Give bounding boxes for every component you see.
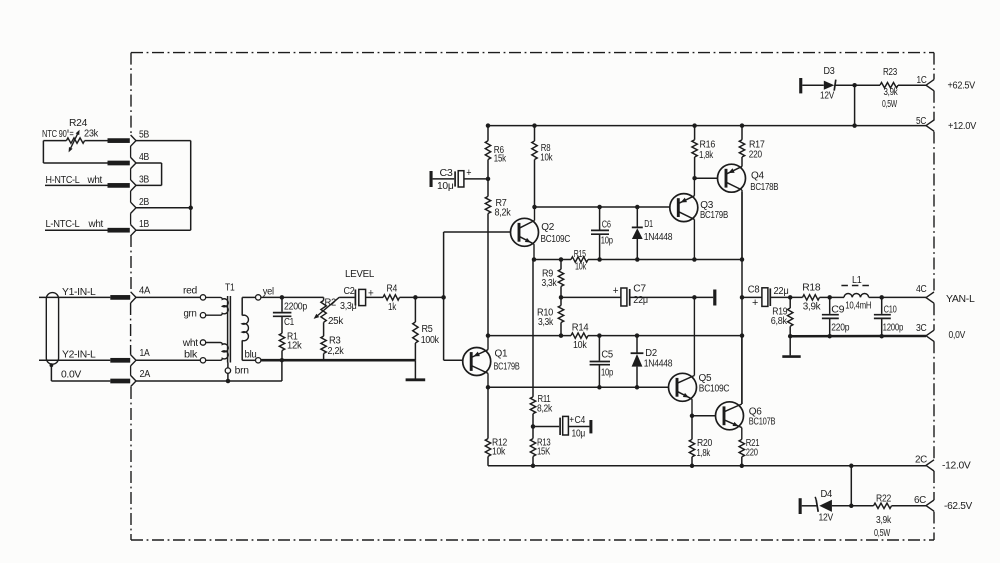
svg-text:10p: 10p xyxy=(601,235,614,246)
svg-text:H-NTC-L: H-NTC-L xyxy=(46,175,81,186)
junction C10 bottom xyxy=(879,334,884,339)
wire L-NTC-L input xyxy=(45,219,108,230)
svg-text:C8: C8 xyxy=(748,284,760,295)
capacitor C8 xyxy=(748,284,803,308)
capacitor C10 xyxy=(874,297,904,336)
svg-text:R5: R5 xyxy=(422,324,434,335)
junction C6 bottom xyxy=(597,257,602,262)
transistor Q5 xyxy=(669,297,730,415)
wire Q1 collector rail to Q5 base xyxy=(488,386,671,388)
svg-text:R18: R18 xyxy=(802,282,821,293)
svg-text:+: + xyxy=(466,167,471,179)
svg-text:2B: 2B xyxy=(139,197,150,208)
svg-text:R15: R15 xyxy=(574,249,587,260)
resistor R15 xyxy=(571,249,588,273)
svg-text:0,0V: 0,0V xyxy=(949,330,966,341)
svg-text:10,4mH: 10,4mH xyxy=(845,301,871,312)
transistor Q1 xyxy=(463,336,520,388)
transformer T1 xyxy=(136,282,274,381)
svg-text:2,2k: 2,2k xyxy=(328,346,345,357)
svg-text:wht: wht xyxy=(87,175,103,186)
junction C9 top xyxy=(827,295,832,300)
svg-text:3,9k: 3,9k xyxy=(876,515,892,526)
resistor R5 xyxy=(413,297,440,360)
junction yel node / C1 xyxy=(280,295,285,300)
connector pin 4A xyxy=(110,286,150,303)
junction R16 top xyxy=(692,123,697,128)
junction R6 top xyxy=(486,123,491,128)
svg-text:3C: 3C xyxy=(916,323,927,334)
svg-text:brn: brn xyxy=(235,366,249,377)
svg-text:1C: 1C xyxy=(917,75,927,86)
svg-text:C1: C1 xyxy=(284,317,295,328)
svg-text:0,5W: 0,5W xyxy=(882,99,898,110)
svg-text:BC107B: BC107B xyxy=(749,417,776,428)
svg-text:25k: 25k xyxy=(328,316,344,327)
capacitor C3 xyxy=(433,167,488,192)
svg-text:10k: 10k xyxy=(492,447,506,458)
svg-text:1200p: 1200p xyxy=(883,323,904,334)
svg-text:Y1-IN-L: Y1-IN-L xyxy=(62,287,96,298)
svg-text:grn: grn xyxy=(184,308,197,319)
junction brn tap on 0.0V xyxy=(226,379,231,384)
svg-text:blk: blk xyxy=(184,350,198,361)
wire +62.5V feed xyxy=(855,85,926,125)
junction D1 bottom xyxy=(635,257,640,262)
svg-text:C7: C7 xyxy=(633,283,646,294)
resistor R18 xyxy=(802,282,829,312)
svg-text:C10: C10 xyxy=(884,304,898,315)
svg-text:22μ: 22μ xyxy=(633,295,648,306)
resistor R7 xyxy=(485,179,511,336)
svg-text:1,8k: 1,8k xyxy=(697,448,711,459)
svg-text:4A: 4A xyxy=(139,286,151,297)
junction output column / rail xyxy=(740,257,745,262)
svg-text:3,3k: 3,3k xyxy=(542,278,558,289)
capacitor C4 xyxy=(533,415,589,439)
resistor R3 xyxy=(321,322,345,360)
svg-text:220p: 220p xyxy=(831,323,850,334)
svg-text:10k: 10k xyxy=(575,262,587,273)
wire +12.0V rail xyxy=(488,125,926,127)
svg-text:2A: 2A xyxy=(140,369,151,380)
svg-text:yel: yel xyxy=(263,286,274,297)
svg-text:D3: D3 xyxy=(824,66,836,77)
svg-text:C6: C6 xyxy=(602,219,612,230)
capacitor C9 xyxy=(822,297,850,336)
svg-text:4C: 4C xyxy=(916,284,927,295)
junction C5 top xyxy=(597,333,602,338)
junction Q3 collector / Q5 collector xyxy=(692,257,697,262)
svg-text:0,5W: 0,5W xyxy=(874,528,891,539)
svg-text:5B: 5B xyxy=(139,130,150,141)
junction R13 bottom xyxy=(531,464,536,469)
capacitor C1 xyxy=(273,297,308,333)
wire Q2 emitter rail xyxy=(534,259,742,261)
resistor R11 xyxy=(530,394,553,426)
svg-text:3B: 3B xyxy=(139,174,150,185)
svg-text:C5: C5 xyxy=(601,349,613,360)
wire R14 rail xyxy=(488,335,742,337)
terminal bar (other channel) C4 xyxy=(589,420,592,433)
svg-text:10k: 10k xyxy=(573,340,588,351)
resistor R10 xyxy=(537,297,564,335)
junction C8/R18/R19 xyxy=(788,295,793,300)
resistor R17 xyxy=(739,126,765,167)
wire output to 4C xyxy=(882,296,926,298)
svg-text:LEVEL: LEVEL xyxy=(345,269,375,280)
junction D2 bottom xyxy=(635,385,640,390)
svg-text:23k: 23k xyxy=(84,129,99,140)
wire C7 line xyxy=(561,296,694,298)
svg-text:4B: 4B xyxy=(139,152,150,163)
connector pin 4C xyxy=(916,284,975,305)
svg-text:C2: C2 xyxy=(344,286,356,297)
junction R17 top xyxy=(740,123,745,128)
wire 5B-2B-1B junction column xyxy=(136,141,191,231)
wire 4B-3B bracket xyxy=(136,163,162,185)
svg-text:8,2k: 8,2k xyxy=(537,404,553,415)
svg-text:5C: 5C xyxy=(916,116,926,127)
ground (output) xyxy=(782,336,800,356)
svg-text:Y2-IN-L: Y2-IN-L xyxy=(62,350,96,361)
svg-text:10μ: 10μ xyxy=(572,428,586,439)
svg-text:12V: 12V xyxy=(820,91,835,102)
connector pin 1A xyxy=(110,348,150,366)
svg-text:BC179B: BC179B xyxy=(494,361,520,372)
resistor R21 xyxy=(739,438,760,466)
board outline (dash-dot frame) xyxy=(131,53,934,540)
junction Q2 collector/R8 xyxy=(532,205,537,210)
svg-text:3,3k: 3,3k xyxy=(538,317,554,328)
svg-text:-62.5V: -62.5V xyxy=(944,501,973,512)
svg-text:-12.0V: -12.0V xyxy=(942,460,971,471)
svg-text:R4: R4 xyxy=(387,283,398,294)
junction C3/R6/R7 xyxy=(486,177,491,182)
svg-text:100k: 100k xyxy=(421,335,440,346)
connector pin 5B xyxy=(108,130,150,147)
wire Q2 collector rail to Q3 base xyxy=(535,206,673,208)
svg-text:T1: T1 xyxy=(225,282,235,293)
transistor Q6 xyxy=(716,336,776,440)
terminal bar (other channel) C7 xyxy=(694,290,716,306)
junction R10 bottom xyxy=(559,333,564,338)
capacitor C5 xyxy=(590,336,614,388)
resistor R9 xyxy=(542,260,564,298)
resistor R19 xyxy=(771,297,793,336)
svg-text:R16: R16 xyxy=(700,140,716,151)
junction Q1 emitter / R7 xyxy=(486,333,491,338)
connector pin 2C xyxy=(915,454,971,471)
svg-text:2200p: 2200p xyxy=(284,301,308,312)
zener diode D3 xyxy=(802,66,854,102)
svg-text:red: red xyxy=(183,285,197,296)
connector pin 1B xyxy=(108,219,150,236)
junction D3 column/+12V xyxy=(852,123,857,128)
svg-text:+: + xyxy=(752,297,758,309)
resistor R8 xyxy=(532,126,554,207)
svg-text:R22: R22 xyxy=(876,493,892,504)
connector pin 6C xyxy=(914,495,973,512)
terminal bar (other channel) D3 xyxy=(799,78,802,93)
svg-text:R2: R2 xyxy=(325,298,337,309)
resistor R16 xyxy=(692,126,716,179)
svg-text:R24: R24 xyxy=(69,118,88,129)
svg-text:8,2k: 8,2k xyxy=(495,208,512,219)
connector pin 2B xyxy=(131,197,150,214)
svg-text:10k: 10k xyxy=(540,153,553,164)
svg-text:R3: R3 xyxy=(329,335,341,346)
zener diode D4 xyxy=(802,489,852,523)
svg-text:BC179B: BC179B xyxy=(700,210,728,221)
wire secondary yel node xyxy=(261,296,324,298)
svg-text:R23: R23 xyxy=(883,67,898,78)
svg-text:220: 220 xyxy=(746,448,759,459)
terminal bar (other channel) C3 xyxy=(430,171,433,187)
svg-text:220: 220 xyxy=(749,150,763,161)
resistor R1 xyxy=(279,331,302,360)
junction D4 column / -12V xyxy=(849,464,854,469)
svg-text:C9: C9 xyxy=(831,304,845,315)
junction C10 top xyxy=(879,295,884,300)
resistor R22 xyxy=(874,493,893,538)
wire input Y1-IN-L xyxy=(39,287,110,298)
resistor R14 xyxy=(571,322,589,351)
svg-text:L-NTC-L: L-NTC-L xyxy=(46,219,81,230)
svg-text:D4: D4 xyxy=(821,489,833,500)
svg-text:+62.5V: +62.5V xyxy=(948,80,976,91)
junction R11/R13/C4 xyxy=(531,424,536,429)
diode D1 xyxy=(632,207,673,260)
wire C8 output line xyxy=(742,296,762,298)
svg-text:6,8k: 6,8k xyxy=(771,316,788,327)
junction D3/R23 xyxy=(852,83,857,88)
wire Q4 base xyxy=(695,177,721,179)
svg-text:Q4: Q4 xyxy=(751,170,764,181)
svg-text:C3: C3 xyxy=(440,168,454,179)
junction R21 bottom xyxy=(740,464,745,469)
potentiometer R2 xyxy=(314,297,345,327)
connector pin 3B xyxy=(108,174,150,191)
junction Q3 emitter/R16/Q4 base xyxy=(692,176,697,181)
resistor R13 xyxy=(530,427,551,466)
svg-text:10μ: 10μ xyxy=(437,181,454,192)
svg-text:BC109C: BC109C xyxy=(699,383,730,394)
svg-text:0.0V: 0.0V xyxy=(61,369,82,380)
connector pin 3C xyxy=(916,323,966,341)
junction R4 line / base column xyxy=(441,295,446,300)
svg-text:D1: D1 xyxy=(644,219,653,230)
wire blu node (signal ground bus, thick) xyxy=(261,359,416,362)
capacitor C7 xyxy=(613,283,648,306)
svg-text:D2: D2 xyxy=(645,348,657,359)
svg-text:15k: 15k xyxy=(494,154,507,165)
svg-text:BC109C: BC109C xyxy=(541,234,571,245)
junction C6 top xyxy=(597,205,602,210)
svg-text:3,9k: 3,9k xyxy=(884,87,899,98)
junction R8 top xyxy=(532,123,537,128)
junction Q1 collector / R12 xyxy=(486,385,491,390)
junction R19 bottom xyxy=(788,334,793,339)
svg-text:C4: C4 xyxy=(575,415,586,426)
transistor Q4 xyxy=(718,164,779,259)
wire output column xyxy=(741,192,743,404)
svg-text:1N4448: 1N4448 xyxy=(644,232,673,243)
connector pin 1C xyxy=(917,75,976,92)
wire 2A 0.0V net to transformer xyxy=(136,360,282,381)
svg-text:NTC 90°=: NTC 90°= xyxy=(42,129,74,140)
connector pin 5C xyxy=(916,116,977,132)
junction R9 top xyxy=(559,257,564,262)
junction 0.0V to signal-ground bus xyxy=(280,358,285,363)
wire R11 bootstrap column xyxy=(532,260,534,397)
svg-text:2C: 2C xyxy=(915,454,927,465)
svg-text:YAN-L: YAN-L xyxy=(946,294,975,305)
svg-text:L1: L1 xyxy=(852,275,862,286)
junction D1 top xyxy=(635,205,640,210)
svg-text:1A: 1A xyxy=(140,348,151,359)
svg-text:+12.0V: +12.0V xyxy=(948,121,977,132)
resistor R6 xyxy=(485,126,507,179)
svg-text:+: + xyxy=(613,285,619,297)
junction R4/R5 xyxy=(413,295,418,300)
terminal bar (other channel) D4 xyxy=(799,498,802,514)
junction Q5 emitter / Q6 base xyxy=(690,414,695,419)
connector pin 4B xyxy=(108,152,150,169)
ground (signal bus) xyxy=(406,360,426,380)
junction node 2B column xyxy=(188,206,193,211)
resistor R23 xyxy=(880,67,899,110)
svg-text:3,9k: 3,9k xyxy=(803,302,822,313)
capacitor C6 xyxy=(591,207,613,260)
inductor L1 xyxy=(830,275,882,312)
junction R9/R10 mid xyxy=(559,295,564,300)
junction output column / C8 xyxy=(740,295,745,300)
junction R20 bottom xyxy=(690,464,695,469)
wire 0.0V output line (thick) xyxy=(790,335,926,338)
transistor Q2 xyxy=(511,207,571,260)
diode D2 xyxy=(631,336,673,388)
connector pin 2A xyxy=(110,369,150,386)
svg-text:22μ: 22μ xyxy=(774,286,789,297)
svg-text:wht: wht xyxy=(88,219,104,230)
transistor Q3 xyxy=(670,178,729,259)
capacitor C2 xyxy=(339,286,383,312)
thermistor R24 (NTC) xyxy=(42,118,108,163)
svg-text:6C: 6C xyxy=(914,495,926,506)
wire 0.0V shield ground xyxy=(51,365,110,381)
svg-text:1B: 1B xyxy=(139,219,150,230)
resistor R12 xyxy=(485,387,507,466)
junction C5 bottom xyxy=(597,385,602,390)
svg-text:BC178B: BC178B xyxy=(750,182,778,193)
junction Q2 emitter xyxy=(532,257,537,262)
svg-text:12V: 12V xyxy=(819,512,834,523)
svg-text:10p: 10p xyxy=(601,367,614,378)
svg-text:R14: R14 xyxy=(572,322,589,333)
junction C7 line / Q5 collector column xyxy=(692,295,697,300)
svg-text:1k: 1k xyxy=(388,302,397,313)
junction D4/R22 xyxy=(849,504,854,509)
cable shield xyxy=(46,293,58,368)
junction C9 bottom xyxy=(827,334,832,339)
svg-text:Q2: Q2 xyxy=(541,222,554,233)
junction Q6 collector / rail xyxy=(740,333,745,338)
svg-text:3,3μ: 3,3μ xyxy=(340,301,357,312)
svg-text:15K: 15K xyxy=(537,447,550,458)
svg-text:1,8k: 1,8k xyxy=(699,150,714,161)
resistor R20 xyxy=(689,416,712,466)
wire H-NTC-L input xyxy=(45,175,108,186)
wire input Y2-IN-L xyxy=(39,350,110,361)
resistor R4 xyxy=(383,283,444,313)
wire Q2 base feedback column xyxy=(444,232,519,360)
wire -12.0V rail xyxy=(488,465,926,467)
wire -62.5V feed xyxy=(851,466,926,506)
junction D2 top xyxy=(635,333,640,338)
svg-text:12k: 12k xyxy=(287,341,303,352)
svg-text:blu: blu xyxy=(245,350,257,361)
svg-text:Q1: Q1 xyxy=(495,348,508,359)
svg-text:wht: wht xyxy=(182,338,199,349)
wire Q6 base xyxy=(692,415,718,417)
svg-text:1N4448: 1N4448 xyxy=(644,358,673,369)
